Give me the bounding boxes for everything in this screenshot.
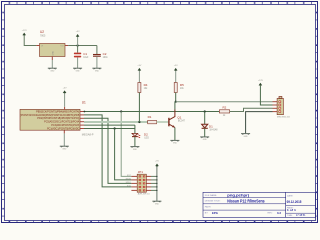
U2 pin OUT stub [65, 45, 68, 47]
svg-text:09.12.2015: 09.12.2015 [287, 199, 302, 204]
node junction R4 bottom on band [138, 121, 140, 123]
supply arrow above X1 [259, 83, 263, 86]
wire U2 output rail [68, 45, 97, 47]
wire rail corner down to C2 [96, 46, 98, 55]
title block row separators left [203, 197, 286, 199]
microcontroller U1 body [20, 109, 80, 130]
ground under LED [130, 146, 139, 148]
svg-text:EPG: EPG [212, 211, 218, 215]
supply +12V arrow [22, 33, 26, 36]
svg-text:DESIGN TITLE:: DESIGN TITLE: [205, 200, 221, 202]
svg-text:BC547: BC547 [178, 120, 186, 122]
U1 VCC pin stub top [64, 107, 66, 110]
wire arrow to R4 [138, 71, 140, 83]
title block divider [285, 192, 287, 217]
JP1 pads [139, 175, 146, 191]
resistor R1 body [148, 120, 157, 123]
svg-text:U1: U1 [82, 100, 86, 104]
title block outline [203, 192, 316, 217]
wire R4 down to band [138, 93, 140, 123]
wire LED to ground [134, 137, 136, 147]
JP1 left pin stubs [131, 176, 137, 190]
connector JP1 body [137, 174, 146, 192]
svg-text:GND: GND [95, 70, 100, 72]
svg-text:+5V: +5V [137, 65, 141, 67]
resistor R2 body [219, 110, 229, 113]
supply arrow above R5 [174, 68, 178, 71]
voltage regulator U2 body [40, 44, 66, 57]
svg-text:MOSI: MOSI [126, 178, 132, 180]
wire P6 branch down to JP1 row2 [115, 129, 132, 180]
JP1 right rail wires [151, 176, 157, 190]
frame ticks left [2, 20, 5, 216]
U1 GND pin stub bottom [63, 130, 65, 133]
svg-text:BY:: BY: [205, 213, 209, 215]
svg-text:R1: R1 [148, 115, 152, 119]
wire supply to X1 pin2 (light) [260, 86, 272, 105]
wire LED feed vertical [134, 125, 136, 133]
frame ticks bottom [17, 221, 311, 223]
svg-text:MISO: MISO [126, 182, 132, 184]
wire +12V to regulator input [24, 36, 36, 46]
capacitor C2 plates [93, 54, 101, 56]
wire U2 GND to ground [51, 60, 53, 68]
supply arrow above JP1 rail [155, 164, 159, 167]
svg-text:VO: VO [60, 46, 63, 48]
ground under U1 [60, 145, 69, 147]
resistor R4 body [138, 83, 141, 93]
wire net P3 staircase to JP1 row3 [84, 118, 131, 183]
svg-text:MKDSN1,5/4: MKDSN1,5/4 [277, 117, 291, 119]
LED D2 triangle [132, 133, 138, 136]
svg-text:D2: D2 [144, 132, 148, 136]
connector X1 body [277, 98, 283, 114]
LED D2 cathode bar [132, 136, 138, 138]
svg-text:+5V: +5V [174, 65, 178, 67]
svg-text:PC3(ADC3/PCINT11)PC2X: PC3(ADC3/PCINT11)PC2X [51, 124, 79, 127]
svg-text:100n: 100n [103, 57, 109, 59]
svg-text:R2: R2 [223, 105, 227, 109]
svg-text:(PCINT22/OC0A/AIN0)PD6/(PCINT2: (PCINT22/OC0A/AIN0)PD6/(PCINT21/OC0B/T1)… [20, 114, 80, 117]
capacitor C1 polarized plates [74, 53, 81, 55]
wire net P4 highlighted band to R1 [84, 121, 148, 123]
svg-text:U2: U2 [40, 30, 44, 34]
svg-text:D1: D1 [209, 124, 213, 128]
svg-text:C1: C1 [83, 52, 87, 56]
wire net P6 to LED vertical [84, 128, 135, 130]
svg-text:R5: R5 [180, 83, 184, 87]
svg-text:TIME:: TIME: [287, 215, 293, 217]
wire collector net to X1 pin1 [176, 101, 273, 103]
svg-text:Q1: Q1 [177, 115, 181, 119]
wire +5V arrow to rail [77, 37, 79, 46]
wire R2 to X1 pin3 [230, 108, 273, 111]
wire D1 to ground [204, 128, 206, 136]
svg-text:GND: GND [62, 148, 67, 150]
ground under D1 [200, 136, 209, 138]
JP1 right pin stubs [146, 176, 151, 190]
JP1 rail junction dots [156, 176, 157, 177]
svg-text:GND: GND [173, 143, 178, 145]
svg-text:C2: C2 [103, 52, 107, 56]
node junction P6 branch [114, 127, 116, 129]
Q1 emitter line with arrow [169, 124, 175, 127]
svg-text:GND: GND [133, 149, 138, 151]
svg-text:PC1(ADC1/PCINT9)/PC0(ADC: PC1(ADC1/PCINT9)/PC0(ADC [47, 127, 79, 130]
node junction P1 branch to JP1 [120, 110, 122, 112]
svg-text:+12V: +12V [22, 30, 28, 32]
svg-text:Nissan P12 RlineSens: Nissan P12 RlineSens [227, 199, 265, 204]
wire X1 pin4 to ground [246, 112, 273, 134]
svg-text:0.3: 0.3 [277, 211, 281, 215]
node junction at C1 top [77, 44, 79, 46]
svg-text:GND: GND [155, 203, 160, 205]
ground under X1 pin4 [241, 133, 250, 135]
node junction D1 tap [204, 110, 206, 112]
supply arrow above R4 [138, 68, 142, 71]
svg-text:+5V: +5V [155, 161, 159, 163]
diode D1 cathode bar [202, 127, 208, 129]
node collector junction [175, 101, 177, 103]
U2 pin IN stub [36, 45, 39, 47]
wire R5 down to collector node [175, 93, 177, 102]
svg-text:SCK: SCK [127, 185, 132, 187]
connector X1 top notch [279, 97, 282, 99]
diode D1 triangle [202, 124, 208, 128]
svg-text:GND: GND [76, 70, 81, 72]
wire D1 tap down [204, 112, 206, 125]
wire R1 to Q1 base [157, 121, 169, 123]
wire +5V to U1 VCC [64, 94, 66, 107]
wire P1 branch down to JP1 row1 (light) [121, 112, 131, 177]
svg-text:7805: 7805 [40, 34, 46, 37]
svg-text:+12V: +12V [258, 80, 264, 82]
U1 right pin stubs [80, 112, 84, 129]
connector X1 pin stubs [273, 102, 278, 112]
wire U1 GND down [63, 133, 65, 146]
svg-text:R4: R4 [144, 83, 148, 87]
wire C2 to ground [96, 56, 98, 68]
transistor Q1 base bar [168, 118, 170, 127]
wire emitter to ground [174, 128, 176, 141]
svg-text:JP1: JP1 [138, 170, 144, 174]
U2 pin GND stub [51, 57, 53, 61]
svg-text:+5V: +5V [76, 31, 80, 33]
svg-text:GND: GND [203, 139, 208, 141]
wire arrow to R5 [175, 71, 177, 83]
wire net P1 from U1 to R2 [84, 111, 219, 113]
svg-text:1N4148: 1N4148 [209, 130, 218, 132]
ground under U2 [48, 67, 57, 69]
svg-text:+5V: +5V [63, 88, 67, 90]
connector X1 pin circles [279, 101, 281, 113]
LED D2 arrows [137, 134, 140, 137]
svg-text:1 of 1: 1 of 1 [287, 208, 296, 212]
svg-text:PC5(ADC5/SCL/PCINT13)/PC4A: PC5(ADC5/SCL/PCINT13)/PC4A [44, 121, 79, 124]
wire collector up to node [174, 102, 176, 110]
U1 pin name rows [20, 110, 80, 130]
node junction at U1 pin 1 [84, 111, 86, 113]
svg-text:LED: LED [144, 138, 149, 140]
JP1 right rail vertical [156, 166, 158, 201]
svg-text:10uF: 10uF [83, 57, 89, 59]
svg-text:PD2(INT0/PCINT18)/PD3(INT1/PCI: PD2(INT0/PCINT18)/PD3(INT1/PCI) [37, 117, 79, 120]
svg-text:PB5(SCK/PCINT5)/PB4(MISO/PCINT: PB5(SCK/PCINT5)/PB4(MISO/PCINT4) [36, 110, 79, 113]
ground under JP1 rail [152, 200, 161, 202]
wire rail down to C1 [77, 46, 79, 53]
supply +5V arrow above U1 [63, 90, 67, 93]
svg-text:GND: GND [244, 136, 249, 138]
frame ticks right [316, 20, 318, 216]
supply +5V arrow above C1 [76, 34, 80, 37]
svg-text:GND: GND [50, 70, 55, 72]
title block row separators right [286, 205, 316, 207]
ground under C1 [73, 67, 82, 69]
svg-text:png.pchprj: png.pchprj [227, 194, 249, 198]
ground under Q1 emitter [170, 139, 179, 141]
svg-text:REV:: REV: [268, 213, 273, 215]
wire net P5 to LED corner [84, 124, 135, 126]
wire C1 to ground [77, 57, 79, 68]
frame ticks top [17, 2, 311, 5]
Q1 collector line [169, 110, 175, 120]
resistor R5 body [174, 83, 177, 93]
svg-text:GND: GND [52, 50, 54, 55]
wire net P2 staircase to JP1 row4 [84, 115, 131, 187]
ground under C2 [92, 67, 101, 69]
